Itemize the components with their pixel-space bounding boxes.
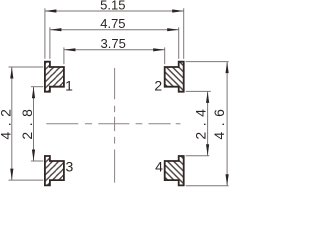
vertical centerline [114,68,116,183]
svg-text:4: 4 [155,159,163,175]
svg-text:2: 2 [154,77,162,93]
dimension 4.75 [50,16,179,31]
svg-text:2.8: 2.8 [19,104,35,140]
horizontal centerline [46,123,180,125]
svg-text:4.2: 4.2 [0,104,13,140]
svg-text:3.75: 3.75 [101,36,126,51]
pad 4 [165,156,184,185]
dimension 3.75 [64,36,165,52]
extension lines left [9,67,44,180]
dimension 2.4 [193,91,210,155]
pad 1 [45,62,64,92]
dimension 4.2 [0,67,13,180]
dimension 2.8 [19,87,35,161]
svg-text:2.4: 2.4 [193,104,209,140]
svg-text:3: 3 [66,159,74,175]
svg-text:4.6: 4.6 [211,104,227,140]
svg-text:5.15: 5.15 [100,0,125,13]
pad 3 [45,156,64,185]
svg-text:1: 1 [65,78,73,94]
svg-text:4.75: 4.75 [100,16,125,31]
dimension 5.15 [45,0,184,13]
dimension 4.6 [211,62,229,186]
pad 2 [165,62,184,92]
extension lines right [186,62,229,186]
extension lines top [45,8,184,64]
